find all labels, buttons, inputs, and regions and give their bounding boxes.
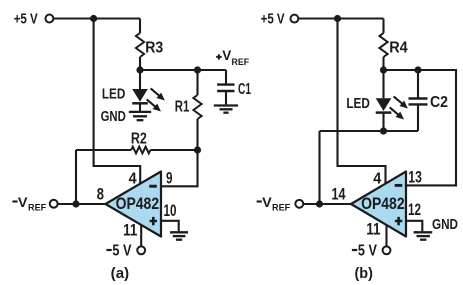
op-amp minus input mark (b) xyxy=(395,184,403,187)
svg-text:13: 13 xyxy=(408,168,422,186)
svg-text:+5 V: +5 V xyxy=(261,11,285,28)
svg-text:REF: REF xyxy=(28,203,46,214)
op-amp plus input mark (b) xyxy=(395,217,402,225)
svg-text:V: V xyxy=(222,48,231,63)
resistor R1 bottom wire xyxy=(196,119,198,150)
svg-text:11: 11 xyxy=(366,221,380,239)
terminal +5V (a) xyxy=(45,15,53,23)
svg-text:11: 11 xyxy=(123,222,137,240)
svg-text:4: 4 xyxy=(129,170,137,187)
wire +5V rail (b) xyxy=(299,17,384,19)
svg-text:9: 9 xyxy=(166,170,173,188)
wire pin 12 to ground (b) xyxy=(406,221,422,232)
junction +5V rail (b) xyxy=(334,15,341,22)
junction LED cathode (b) xyxy=(380,127,387,134)
junction R2/R1/pin9 node (a) xyxy=(194,146,201,153)
wire LED anode (a) xyxy=(139,70,141,89)
svg-text:V: V xyxy=(18,194,28,210)
terminal +5V (b) xyxy=(290,15,298,23)
capacitor C1 xyxy=(217,85,234,91)
wire +5V to pin4 (b) xyxy=(338,19,386,184)
svg-text:14: 14 xyxy=(332,186,347,204)
wire LED cathode to bottom node (b) xyxy=(382,114,384,131)
ground under C1 xyxy=(214,106,238,113)
wire pin 11 to -5V (a) xyxy=(140,225,142,246)
wire +5V to pin4 (a) xyxy=(94,19,141,184)
svg-text:12: 12 xyxy=(408,201,421,219)
wire output to -VREF (a) xyxy=(58,203,106,205)
LED D2 cathode bar xyxy=(376,111,392,114)
terminal -VREF (a) xyxy=(50,200,58,208)
resistor R2 xyxy=(131,147,150,154)
wire output node riser (a) xyxy=(75,150,77,204)
wire R3 to node (a) xyxy=(139,57,141,70)
svg-text:5 V: 5 V xyxy=(112,243,132,260)
svg-text:C2: C2 xyxy=(430,94,448,111)
node LED anode row (a) xyxy=(140,69,226,71)
net label -VREF (b) xyxy=(257,200,262,202)
wire feedback node to pin 9 (a) xyxy=(161,150,198,186)
LED D2 diode xyxy=(376,98,392,111)
junction +5V rail (a) xyxy=(90,15,97,22)
svg-text:R4: R4 xyxy=(389,39,408,56)
wire C1 to ground xyxy=(225,92,227,104)
wire LED cathode row (b) xyxy=(320,130,419,132)
net label +VREF xyxy=(216,54,221,59)
op-amp minus input mark (a) xyxy=(149,185,157,188)
svg-text:R1: R1 xyxy=(175,98,190,115)
resistor R3 xyxy=(136,33,144,57)
junction LED anode (a) xyxy=(136,66,143,73)
svg-text:REF: REF xyxy=(232,57,250,68)
capacitor C2 xyxy=(409,99,428,105)
capacitor C2 bottom wire xyxy=(417,106,419,132)
svg-text:R3: R3 xyxy=(145,39,163,56)
resistor R1 xyxy=(193,95,201,119)
svg-text:GND: GND xyxy=(101,108,126,125)
ground under LED (a) xyxy=(129,112,151,120)
resistor R1 top wire xyxy=(196,70,198,95)
wire pin 10 to ground (a) xyxy=(161,221,179,232)
wire LED cathode to ground (a) xyxy=(139,105,141,112)
ground at pin 12 (b) xyxy=(414,232,433,239)
op-amp U1 OP482 (a) xyxy=(106,172,162,237)
junction output node (b) xyxy=(316,200,323,207)
terminal -5V (b) xyxy=(383,246,391,254)
capacitor C2 top wire xyxy=(417,70,419,98)
terminal -5V (a) xyxy=(137,246,145,254)
junction output node (a) xyxy=(72,200,79,207)
net label -VREF (a) xyxy=(12,200,17,202)
junction LED anode (b) xyxy=(380,66,387,73)
svg-text:5 V: 5 V xyxy=(358,243,378,260)
capacitor C1 top wire xyxy=(225,70,227,84)
svg-text:4: 4 xyxy=(373,170,381,187)
label -5 V (b) xyxy=(352,249,357,251)
junction R1 top (a) xyxy=(194,66,201,73)
svg-text:+5 V: +5 V xyxy=(14,11,38,28)
wire R2 left lead xyxy=(76,149,131,151)
wire R4 to node (b) xyxy=(382,57,384,70)
ground at pin 10 (a) xyxy=(170,232,188,239)
LED D2 arrows xyxy=(390,96,408,119)
svg-text:LED: LED xyxy=(102,86,125,103)
svg-text:REF: REF xyxy=(272,203,290,214)
junction C2 top (b) xyxy=(414,66,421,73)
wire pin 11 to -5V (b) xyxy=(385,225,387,246)
op-amp plus input mark (a) xyxy=(150,217,157,225)
wire rail corner to R3 (a) xyxy=(139,19,141,34)
LED D1 arrows xyxy=(147,88,165,111)
resistor R4 xyxy=(379,33,387,57)
wire rail corner to R4 (b) xyxy=(382,19,384,34)
svg-text:GND: GND xyxy=(432,216,458,233)
svg-text:8: 8 xyxy=(97,186,104,204)
svg-text:(b): (b) xyxy=(355,265,373,282)
svg-text:OP482: OP482 xyxy=(116,195,160,213)
LED D1 diode xyxy=(132,89,148,102)
label -5 V (a) xyxy=(106,249,111,251)
terminal -VREF (b) xyxy=(295,200,303,208)
svg-text:10: 10 xyxy=(164,202,177,220)
wire +5V rail (a) xyxy=(54,17,141,19)
op-amp U2 OP482 (b) xyxy=(351,172,406,237)
wire cathode node to output riser (b) xyxy=(318,131,320,204)
LED D1 cathode bar xyxy=(132,102,148,105)
svg-text:OP482: OP482 xyxy=(361,195,405,213)
node LED anode row and pin13 riser (b) xyxy=(384,70,457,185)
wire output to -VREF (b) xyxy=(303,203,351,205)
wire LED anode (b) xyxy=(382,70,384,98)
svg-text:R2: R2 xyxy=(131,130,147,147)
svg-text:(a): (a) xyxy=(111,265,129,282)
svg-text:LED: LED xyxy=(346,95,369,112)
svg-text:V: V xyxy=(262,194,272,210)
wire R2 right lead xyxy=(150,149,197,151)
svg-text:C1: C1 xyxy=(238,81,251,98)
